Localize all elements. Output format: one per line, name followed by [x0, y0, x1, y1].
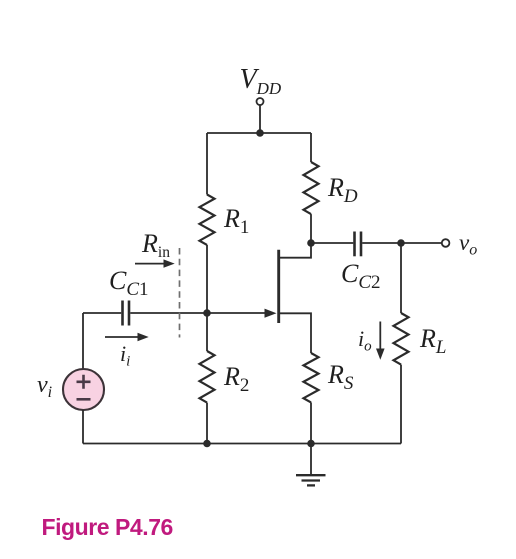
- node VDD junction dot: [256, 129, 264, 137]
- wire output node to terminal: [401, 242, 442, 244]
- svg-text:io: io: [358, 326, 372, 355]
- source vi circle: [63, 369, 104, 410]
- node gate junction dot: [203, 309, 211, 317]
- resistor R1: [200, 195, 215, 245]
- svg-text:vo: vo: [459, 230, 477, 259]
- node drain junction dot: [307, 239, 315, 247]
- transistor Q1 channel bar: [277, 250, 280, 323]
- wire VDD stub: [259, 105, 261, 133]
- wire gate node to R2: [206, 313, 208, 351]
- label Rin with arrow: [135, 229, 175, 268]
- wire CC1 to gate node: [130, 312, 207, 314]
- svg-text:RD: RD: [327, 173, 358, 207]
- wire RD bottom to drain node: [310, 214, 312, 243]
- label CC2: [341, 259, 381, 293]
- wire input left horizontal: [83, 312, 121, 314]
- svg-text:R1: R1: [223, 204, 249, 238]
- wire top rail: [207, 132, 311, 134]
- svg-text:VDD: VDD: [240, 64, 282, 98]
- label VDD: [240, 64, 282, 98]
- dashed line Rin boundary: [179, 248, 181, 338]
- resistor RD: [304, 162, 319, 214]
- resistor R2: [200, 351, 215, 403]
- resistor RL: [394, 313, 409, 365]
- VDD terminal open circle: [257, 98, 264, 105]
- svg-text:RL: RL: [419, 324, 446, 358]
- label vo: [459, 230, 477, 259]
- wire R1 bottom to gate node: [206, 245, 208, 313]
- label RS: [327, 360, 354, 394]
- arrow io with label: [358, 322, 385, 360]
- node R2 bottom junction dot: [203, 440, 211, 448]
- terminal vo open circle: [442, 239, 450, 247]
- ground: [296, 444, 326, 486]
- svg-text:RS: RS: [327, 360, 354, 394]
- wire RD branch upper: [310, 133, 312, 162]
- label R2: [223, 362, 249, 396]
- wire RS bottom: [310, 402, 312, 443]
- wire R1 branch upper: [206, 133, 208, 195]
- capacitor CC1: [123, 301, 130, 326]
- transistor Q1 source lead: [280, 313, 311, 353]
- wire drain to CC2: [311, 242, 353, 244]
- label vi: [37, 372, 52, 401]
- node ground junction dot: [307, 440, 315, 448]
- wire source branch upper: [82, 313, 84, 369]
- wire RL bottom: [400, 365, 402, 444]
- node output junction dot: [397, 239, 405, 247]
- svg-text:Rin: Rin: [141, 229, 170, 261]
- wire bottom rail: [83, 443, 401, 445]
- arrow ii with label: [105, 333, 149, 370]
- wire CC2 to output node: [362, 242, 401, 244]
- wire gate with arrow: [207, 309, 277, 318]
- caption Figure P4.76: [42, 514, 173, 540]
- label RD: [327, 173, 358, 207]
- svg-text:vi: vi: [37, 372, 52, 401]
- svg-text:CC2: CC2: [341, 259, 381, 293]
- label CC1: [109, 266, 149, 300]
- resistor RS: [304, 353, 319, 402]
- svg-text:CC1: CC1: [109, 266, 149, 300]
- svg-text:Figure P4.76: Figure P4.76: [42, 514, 173, 540]
- transistor Q1 drain lead: [280, 243, 311, 258]
- label RL: [419, 324, 446, 358]
- svg-text:ii: ii: [120, 341, 130, 370]
- svg-text:R2: R2: [223, 362, 249, 396]
- capacitor CC2: [355, 232, 362, 257]
- wire source bottom: [82, 410, 84, 444]
- label R1: [223, 204, 249, 238]
- wire R2 bottom: [206, 403, 208, 444]
- wire output node to RL: [400, 243, 402, 313]
